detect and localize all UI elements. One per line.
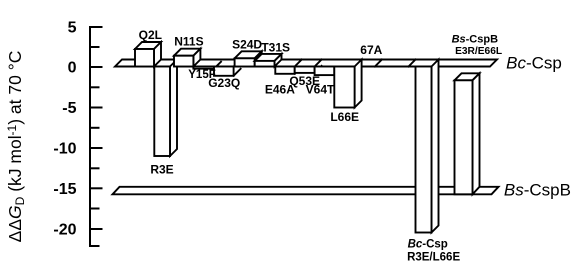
- bar Bc-Csp R3E/L66E front face: [416, 67, 432, 233]
- svg-text:L66E: L66E: [330, 110, 359, 124]
- svg-text:-10: -10: [53, 141, 76, 158]
- tick left of R3E/L66E bar: [409, 60, 416, 67]
- major tick -5: [90, 107, 102, 109]
- bar T31S top face: [255, 54, 282, 61]
- svg-text:R3E: R3E: [150, 163, 173, 177]
- bar L66E side face: [355, 60, 362, 108]
- major tick -10: [90, 147, 102, 149]
- bar N11S side face: [193, 49, 200, 67]
- bar E46A bottom-right edge: [295, 67, 302, 74]
- bar Q2L front face: [135, 49, 154, 67]
- Bc-Csp ribbon at 0: [115, 60, 497, 67]
- svg-text:Bs-CspB: Bs-CspB: [452, 34, 499, 46]
- svg-text:5: 5: [68, 20, 77, 37]
- tick G23Q/S24D boundary: [234, 60, 241, 67]
- bar N11S front face: [174, 56, 193, 67]
- minor tick 2.5: [90, 46, 99, 48]
- svg-text:Bc-Csp: Bc-Csp: [506, 53, 562, 72]
- bar Bs-CspB E3R/E66L front face: [455, 80, 473, 194]
- svg-text:S24D: S24D: [232, 38, 262, 52]
- bar L66E front face: [334, 67, 354, 108]
- bar T31S side face: [275, 54, 282, 67]
- major tick 5: [90, 26, 102, 28]
- svg-text:Q2L: Q2L: [139, 28, 162, 42]
- tick 67A right boundary: [375, 60, 382, 67]
- svg-text:R3E/L66E: R3E/L66E: [407, 252, 460, 264]
- svg-text:E3R/E66L: E3R/E66L: [455, 46, 502, 57]
- svg-text:T31S: T31S: [261, 41, 290, 55]
- bar Y15F bottom-right edge: [214, 62, 221, 69]
- Bs-CspB ribbon at -15.8: [113, 187, 499, 195]
- svg-text:N11S: N11S: [174, 34, 203, 48]
- minor tick -2.5: [90, 86, 99, 88]
- tick E46A/Q53E boundary: [295, 60, 302, 67]
- svg-text:-15: -15: [53, 181, 76, 198]
- bar Q2L top face: [135, 42, 161, 49]
- bar Q53E front face: [295, 67, 315, 73]
- svg-text:0: 0: [68, 60, 77, 77]
- bar S24D front face: [235, 58, 255, 66]
- bar Q2L side face: [154, 42, 161, 67]
- bar Bc-Csp R3E/L66E side face: [432, 60, 439, 233]
- bar S24D top face: [235, 51, 262, 58]
- svg-text:67A: 67A: [360, 43, 382, 57]
- bar Bs-CspB E3R/E66L top face: [455, 73, 480, 80]
- svg-text:-20: -20: [53, 222, 76, 239]
- bar V64T front face: [315, 67, 335, 76]
- bar E46A front face: [275, 67, 294, 74]
- bar Bs-CspB E3R/E66L side face: [473, 73, 480, 194]
- major tick 0: [90, 66, 102, 68]
- tick Q53E/V64T boundary: [315, 60, 322, 67]
- minor tick -7.5: [90, 127, 99, 129]
- svg-text:ΔΔGD (kJ mol-1) at 70 °C: ΔΔGD (kJ mol-1) at 70 °C: [5, 51, 27, 243]
- svg-text:Bs-CspB: Bs-CspB: [504, 181, 571, 200]
- svg-text:G23Q: G23Q: [208, 76, 240, 90]
- bar N11S top face: [174, 49, 200, 56]
- bar T31S front face: [255, 61, 275, 67]
- svg-text:V64T: V64T: [306, 82, 335, 96]
- bar Q53E bottom-right edge: [315, 66, 322, 73]
- minor tick -17.5: [90, 208, 99, 210]
- svg-text:-5: -5: [62, 100, 76, 117]
- bar R3E front face: [154, 67, 170, 157]
- bar Y15F front face: [193, 67, 214, 69]
- y-axis line: [90, 27, 102, 246]
- bar R3E side face: [170, 60, 177, 157]
- minor tick -22: [90, 245, 99, 247]
- svg-text:Bc-Csp: Bc-Csp: [408, 239, 448, 251]
- major tick -15: [90, 187, 102, 189]
- major tick -20: [90, 228, 102, 230]
- bar S24D side face: [255, 51, 262, 61]
- bar G23Q front face: [214, 67, 234, 76]
- bar G23Q bottom-right edge: [234, 69, 241, 76]
- minor tick -12.5: [90, 167, 99, 169]
